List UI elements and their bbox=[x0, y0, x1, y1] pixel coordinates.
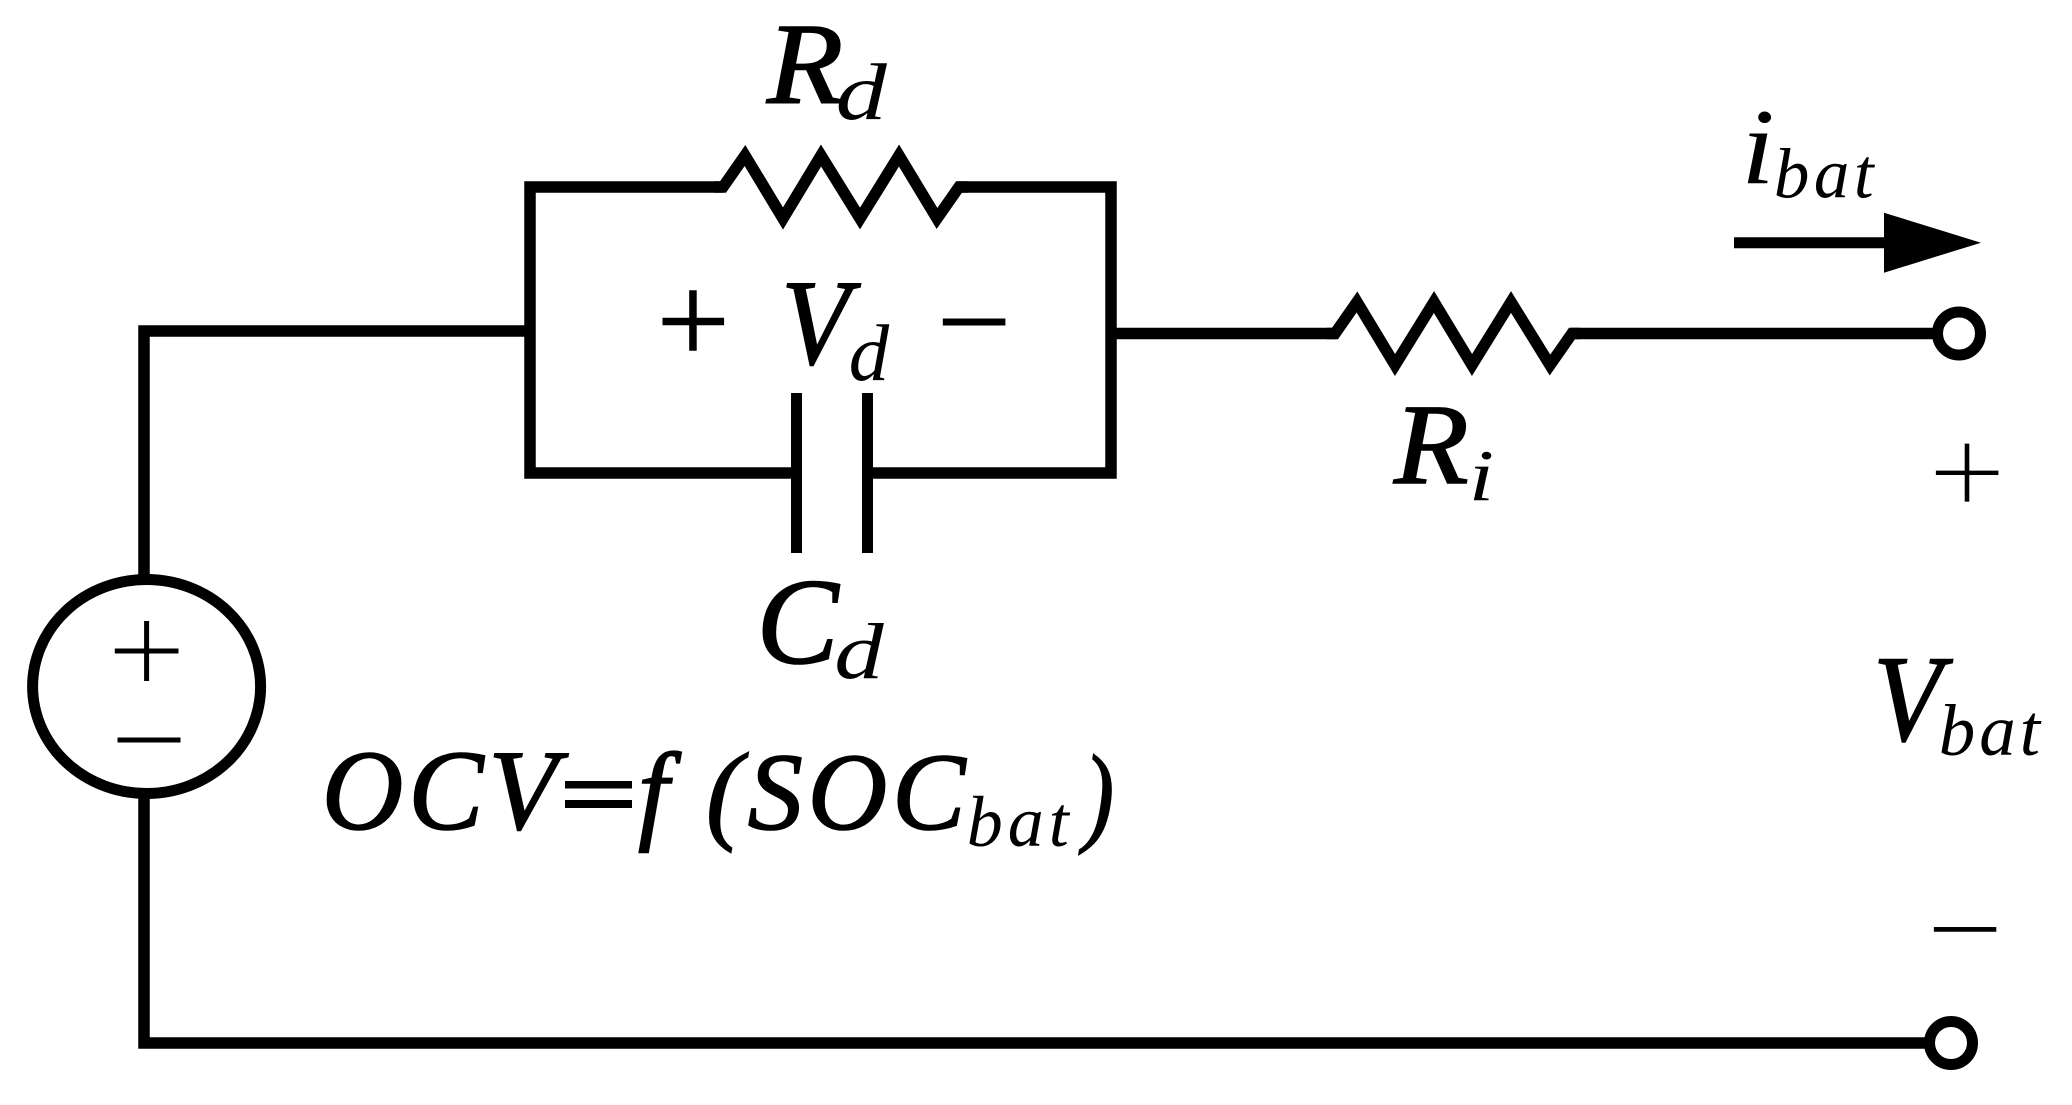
svg-text:d: d bbox=[849, 309, 890, 398]
svg-text:i: i bbox=[1741, 86, 1775, 207]
svg-text:d: d bbox=[836, 48, 888, 137]
svg-text:): ) bbox=[1079, 732, 1114, 854]
svg-text:i: i bbox=[1469, 435, 1494, 516]
svg-text:bat: bat bbox=[967, 782, 1074, 862]
svg-text:R: R bbox=[1393, 380, 1469, 508]
svg-text:f (SOC: f (SOC bbox=[638, 731, 971, 853]
svg-text:C: C bbox=[757, 553, 841, 690]
svg-text:bat: bat bbox=[1939, 690, 2044, 771]
svg-text:OCV: OCV bbox=[322, 727, 569, 854]
svg-text:R: R bbox=[766, 1, 843, 129]
svg-text:bat: bat bbox=[1774, 136, 1878, 214]
svg-text:d: d bbox=[834, 608, 884, 695]
